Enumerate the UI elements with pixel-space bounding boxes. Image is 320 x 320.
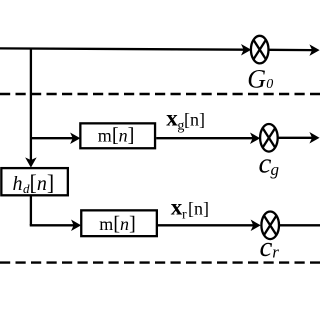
svg-text:r: r bbox=[182, 207, 187, 222]
svg-text:m[n]: m[n] bbox=[98, 125, 135, 147]
svg-text:G: G bbox=[247, 65, 266, 94]
svg-text:g: g bbox=[271, 160, 280, 179]
svg-text:m[n]: m[n] bbox=[99, 213, 136, 235]
svg-text:x: x bbox=[171, 195, 183, 220]
svg-text:[n]: [n] bbox=[30, 170, 55, 195]
svg-text:r: r bbox=[272, 243, 279, 262]
svg-text:[n]: [n] bbox=[188, 199, 209, 219]
svg-text:[n]: [n] bbox=[184, 109, 205, 129]
svg-text:h: h bbox=[13, 173, 23, 195]
svg-text:0: 0 bbox=[266, 77, 273, 92]
svg-text:c: c bbox=[260, 231, 273, 263]
